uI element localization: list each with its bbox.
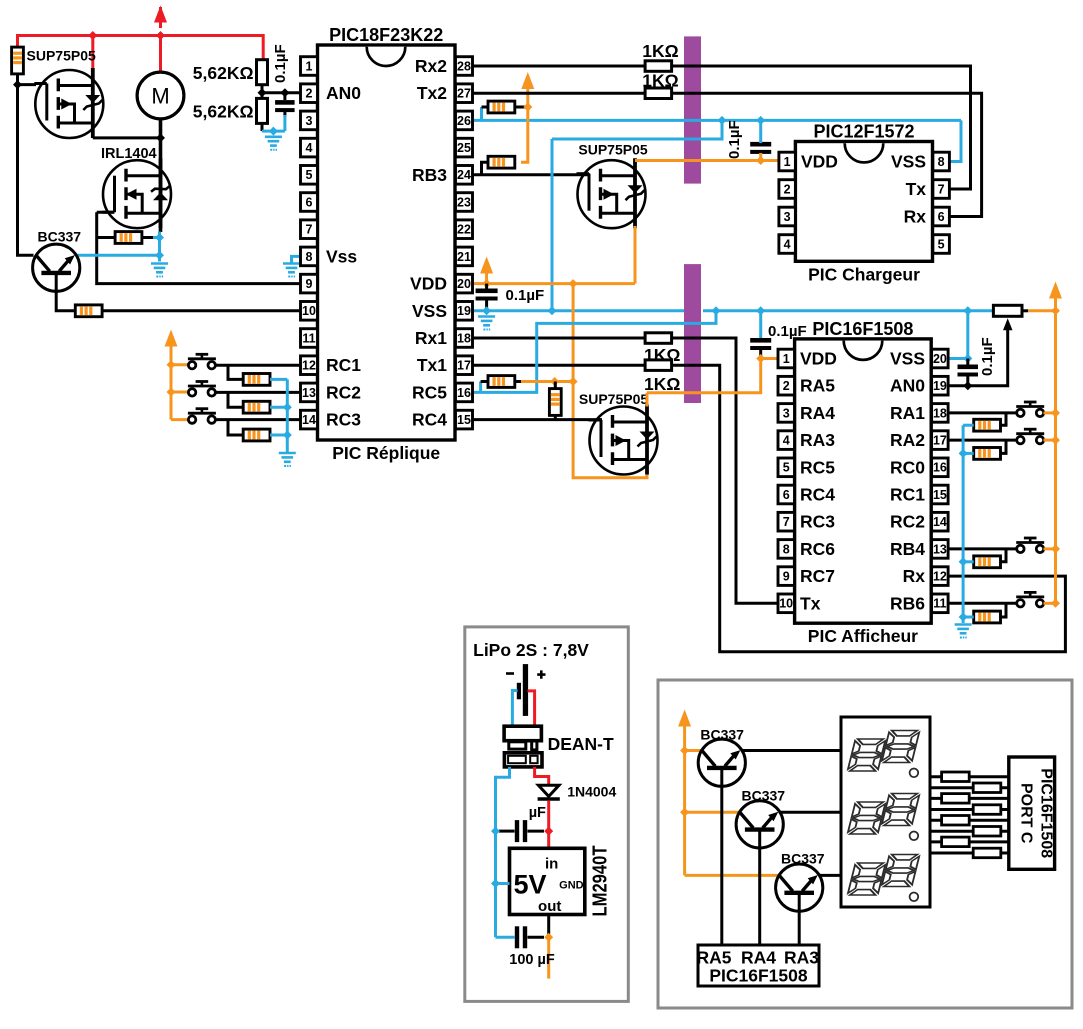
svg-text:1N4004: 1N4004 — [567, 784, 616, 800]
svg-text:Rx1: Rx1 — [415, 328, 447, 348]
svg-text:VDD: VDD — [800, 349, 837, 369]
svg-text:8: 8 — [938, 155, 945, 169]
svg-text:3: 3 — [784, 210, 791, 224]
svg-text:PIC12F1572: PIC12F1572 — [813, 122, 914, 142]
svg-text:4: 4 — [784, 237, 791, 251]
svg-text:RA5: RA5 — [800, 376, 835, 396]
svg-text:RB6: RB6 — [890, 593, 925, 613]
svg-text:18: 18 — [933, 406, 947, 420]
svg-text:RA2: RA2 — [890, 430, 925, 450]
svg-text:27: 27 — [457, 87, 471, 101]
svg-text:RC1: RC1 — [326, 355, 361, 375]
svg-text:5V: 5V — [513, 870, 546, 900]
svg-text:LM2940T: LM2940T — [590, 846, 612, 917]
svg-text:22: 22 — [457, 223, 471, 237]
svg-text:16: 16 — [933, 461, 947, 475]
svg-text:PIC18F23K22: PIC18F23K22 — [329, 25, 443, 45]
svg-text:AN0: AN0 — [326, 83, 361, 103]
svg-text:RC7: RC7 — [800, 566, 835, 586]
svg-text:RA3: RA3 — [784, 948, 819, 968]
svg-text:PIC Afficheur: PIC Afficheur — [808, 626, 918, 646]
svg-text:RC6: RC6 — [800, 539, 835, 559]
svg-text:100 µF: 100 µF — [509, 952, 555, 968]
svg-text:RC3: RC3 — [800, 512, 835, 532]
svg-text:Rx2: Rx2 — [415, 56, 447, 76]
svg-text:2: 2 — [784, 182, 791, 196]
svg-text:5: 5 — [306, 168, 313, 182]
svg-text:1KΩ: 1KΩ — [642, 41, 678, 61]
svg-text:15: 15 — [457, 413, 471, 427]
svg-text:RC3: RC3 — [326, 410, 361, 430]
svg-text:5: 5 — [938, 237, 945, 251]
svg-text:VSS: VSS — [891, 152, 926, 172]
svg-text:VDD: VDD — [801, 152, 838, 172]
svg-text:17: 17 — [933, 434, 947, 448]
svg-text:0.1µF: 0.1µF — [979, 337, 996, 376]
svg-text:11: 11 — [302, 331, 315, 345]
svg-text:RC4: RC4 — [800, 485, 835, 505]
svg-text:2: 2 — [306, 87, 313, 101]
svg-text:GND: GND — [559, 880, 584, 892]
svg-text:28: 28 — [457, 59, 471, 73]
svg-text:VDD: VDD — [410, 274, 447, 294]
svg-text:19: 19 — [457, 304, 471, 318]
svg-text:1: 1 — [784, 155, 791, 169]
svg-text:8: 8 — [783, 542, 790, 556]
svg-text:RC5: RC5 — [412, 382, 447, 402]
svg-text:M: M — [151, 84, 169, 109]
svg-text:20: 20 — [457, 277, 471, 291]
svg-text:RC2: RC2 — [890, 512, 925, 532]
svg-text:0.1µF: 0.1µF — [272, 44, 289, 83]
svg-text:11: 11 — [933, 597, 946, 611]
svg-text:2: 2 — [783, 379, 790, 393]
svg-text:VSS: VSS — [890, 349, 925, 369]
svg-text:RA3: RA3 — [800, 430, 835, 450]
svg-text:Tx: Tx — [906, 179, 927, 199]
svg-text:19: 19 — [933, 379, 947, 393]
svg-text:7: 7 — [306, 223, 313, 237]
svg-text:4: 4 — [306, 141, 313, 155]
svg-text:RB4: RB4 — [890, 539, 925, 559]
svg-text:21: 21 — [457, 250, 471, 264]
svg-text:10: 10 — [302, 304, 316, 318]
svg-text:1: 1 — [306, 59, 313, 73]
svg-text:14: 14 — [933, 515, 947, 529]
svg-text:5,62KΩ: 5,62KΩ — [193, 63, 254, 83]
svg-text:15: 15 — [933, 488, 947, 502]
svg-text:16: 16 — [457, 386, 471, 400]
svg-text:18: 18 — [457, 331, 471, 345]
svg-text:in: in — [545, 856, 558, 873]
svg-text:17: 17 — [457, 359, 471, 373]
svg-text:13: 13 — [302, 386, 316, 400]
svg-text:DEAN-T: DEAN-T — [548, 734, 614, 754]
svg-text:RA5: RA5 — [696, 948, 731, 968]
svg-text:RA4: RA4 — [741, 948, 776, 968]
svg-text:6: 6 — [783, 488, 790, 502]
svg-text:SUP75P05: SUP75P05 — [579, 391, 648, 407]
svg-text:5: 5 — [783, 461, 790, 475]
svg-text:BC337: BC337 — [781, 851, 825, 867]
svg-text:out: out — [538, 898, 561, 915]
svg-text:1KΩ: 1KΩ — [644, 374, 680, 394]
svg-text:VSS: VSS — [412, 301, 447, 321]
svg-text:0.1µF: 0.1µF — [506, 287, 545, 304]
svg-text:PIC16F1508: PIC16F1508 — [812, 319, 913, 339]
svg-text:3: 3 — [306, 114, 313, 128]
svg-text:BC337: BC337 — [38, 229, 82, 245]
svg-text:4: 4 — [783, 434, 790, 448]
svg-text:5,62KΩ: 5,62KΩ — [193, 102, 254, 122]
svg-text:SUP75P05: SUP75P05 — [578, 142, 647, 158]
svg-text:PIC Réplique: PIC Réplique — [332, 443, 440, 463]
svg-text:RA4: RA4 — [800, 403, 835, 423]
svg-text:12: 12 — [302, 359, 316, 373]
svg-text:10: 10 — [779, 597, 793, 611]
svg-text:26: 26 — [457, 114, 471, 128]
svg-text:AN0: AN0 — [890, 376, 925, 396]
svg-text:23: 23 — [457, 195, 471, 209]
svg-text:6: 6 — [306, 195, 313, 209]
svg-text:PIC16F1508: PIC16F1508 — [1038, 768, 1055, 858]
svg-text:BC337: BC337 — [742, 788, 786, 804]
svg-text:24: 24 — [457, 168, 471, 182]
svg-text:3: 3 — [783, 406, 790, 420]
svg-text:µF: µF — [529, 805, 546, 821]
svg-text:Rx: Rx — [904, 207, 927, 227]
svg-text:RC2: RC2 — [326, 382, 361, 402]
svg-text:RA1: RA1 — [890, 403, 925, 423]
svg-text:RC1: RC1 — [890, 485, 925, 505]
svg-text:Rx: Rx — [903, 566, 926, 586]
svg-text:12: 12 — [933, 570, 947, 584]
svg-text:7: 7 — [783, 515, 790, 529]
svg-text:PIC16F1508: PIC16F1508 — [709, 966, 808, 986]
svg-text:LiPo 2S : 7,8V: LiPo 2S : 7,8V — [473, 640, 589, 660]
svg-text:1: 1 — [783, 352, 790, 366]
svg-text:BC337: BC337 — [700, 727, 744, 743]
svg-text:1KΩ: 1KΩ — [642, 71, 678, 91]
svg-text:PIC Chargeur: PIC Chargeur — [808, 264, 920, 284]
svg-text:8: 8 — [306, 250, 313, 264]
svg-text:Tx: Tx — [800, 593, 821, 613]
svg-text:RC4: RC4 — [412, 410, 447, 430]
svg-text:RC0: RC0 — [890, 457, 925, 477]
svg-text:Tx1: Tx1 — [417, 355, 447, 375]
svg-text:20: 20 — [933, 352, 947, 366]
svg-text:7: 7 — [938, 182, 945, 196]
svg-text:IRL1404: IRL1404 — [101, 146, 157, 162]
svg-text:Vss: Vss — [326, 246, 357, 266]
svg-text:25: 25 — [457, 141, 471, 155]
svg-text:RB3: RB3 — [412, 165, 447, 185]
svg-text:0.1µF: 0.1µF — [726, 120, 743, 159]
svg-text:13: 13 — [933, 542, 947, 556]
svg-text:9: 9 — [783, 570, 790, 584]
svg-text:6: 6 — [938, 210, 945, 224]
svg-text:14: 14 — [302, 413, 316, 427]
svg-text:PORT C: PORT C — [1018, 783, 1035, 844]
svg-text:Tx2: Tx2 — [417, 83, 447, 103]
svg-text:SUP75P05: SUP75P05 — [27, 48, 96, 64]
svg-text:9: 9 — [306, 277, 313, 291]
svg-text:RC5: RC5 — [800, 457, 835, 477]
